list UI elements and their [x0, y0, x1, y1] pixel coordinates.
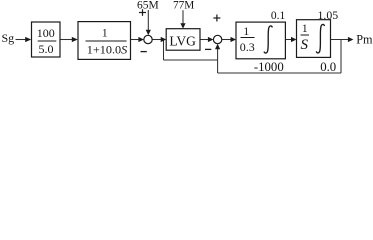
block G4 limited integrator 1/S [297, 20, 331, 58]
svg-text:1+10.0S: 1+10.0S [87, 43, 128, 57]
block G1 gain 100/5.0 [32, 22, 61, 57]
block LVG low value gate [166, 29, 200, 51]
arrowhead into block3 [231, 37, 237, 42]
svg-text:1: 1 [302, 23, 308, 35]
block G2 lag 1/(1+10.0S) [78, 22, 131, 60]
svg-text:Pm: Pm [356, 32, 373, 46]
fraction bar [38, 40, 57, 42]
integrator symbol [264, 26, 272, 53]
fraction bar [241, 37, 255, 39]
svg-text:-1000: -1000 [254, 60, 284, 74]
svg-text:1.05: 1.05 [317, 8, 338, 22]
wire block3 to block4 [285, 39, 291, 41]
svg-text:100: 100 [37, 26, 55, 40]
arrowhead feedback up into summer2 [215, 44, 220, 50]
arrowhead 65M down into summer1 [146, 30, 151, 36]
wire Sg input [16, 39, 27, 41]
wire summer1 to LVG [152, 39, 161, 41]
wire block1 to block2 [60, 39, 73, 41]
svg-text:1: 1 [102, 28, 108, 40]
wire inner feedback horizontal [164, 59, 218, 61]
svg-text:0.3: 0.3 [240, 40, 255, 54]
wire 65M drop [147, 10, 149, 32]
summer 2 [213, 35, 221, 43]
svg-text:77M: 77M [173, 0, 194, 11]
block G3 limited integrator 1/0.3 [236, 22, 285, 59]
svg-text:LVG: LVG [169, 33, 196, 48]
svg-text:1: 1 [243, 26, 249, 38]
svg-text:0.0: 0.0 [320, 60, 336, 74]
svg-text:S: S [301, 37, 309, 53]
wire LVG to summer2 [200, 39, 209, 41]
arrowhead Pm output [348, 37, 354, 42]
wire feedback vertical into summer2 [217, 48, 219, 74]
sign plus above summer2 [213, 15, 220, 22]
wire block2 to summer1 [131, 39, 140, 41]
arrowhead into block2 [72, 37, 78, 42]
arrowhead into LVG [161, 37, 167, 42]
sign plus for 65M input [139, 9, 146, 16]
summer 1 [144, 35, 152, 43]
arrowhead into block4 [291, 37, 297, 42]
wire outer feedback right vertical [340, 40, 342, 74]
wire inner feedback tap vertical [163, 40, 165, 61]
wire block4 output to Pm [331, 39, 349, 41]
wire 77M drop [182, 10, 184, 25]
arrowhead 77M down into LVG [180, 23, 185, 28]
svg-text:Sg: Sg [2, 31, 15, 45]
fraction bar [301, 34, 310, 36]
arrowhead into block1 [25, 37, 31, 42]
wire summer2 to block3 [222, 39, 231, 41]
sign minus under summer1 [141, 51, 147, 53]
svg-text:0.1: 0.1 [271, 10, 286, 22]
arrowhead into summer2 left [208, 37, 214, 42]
fraction bar [86, 40, 127, 42]
svg-text:5.0: 5.0 [39, 42, 54, 56]
svg-text:65M: 65M [137, 0, 159, 11]
sign minus left-below summer2 [205, 48, 211, 50]
arrowhead into summer1 left [138, 37, 144, 42]
wire outer feedback bottom [218, 72, 341, 74]
integrator symbol [316, 24, 324, 52]
